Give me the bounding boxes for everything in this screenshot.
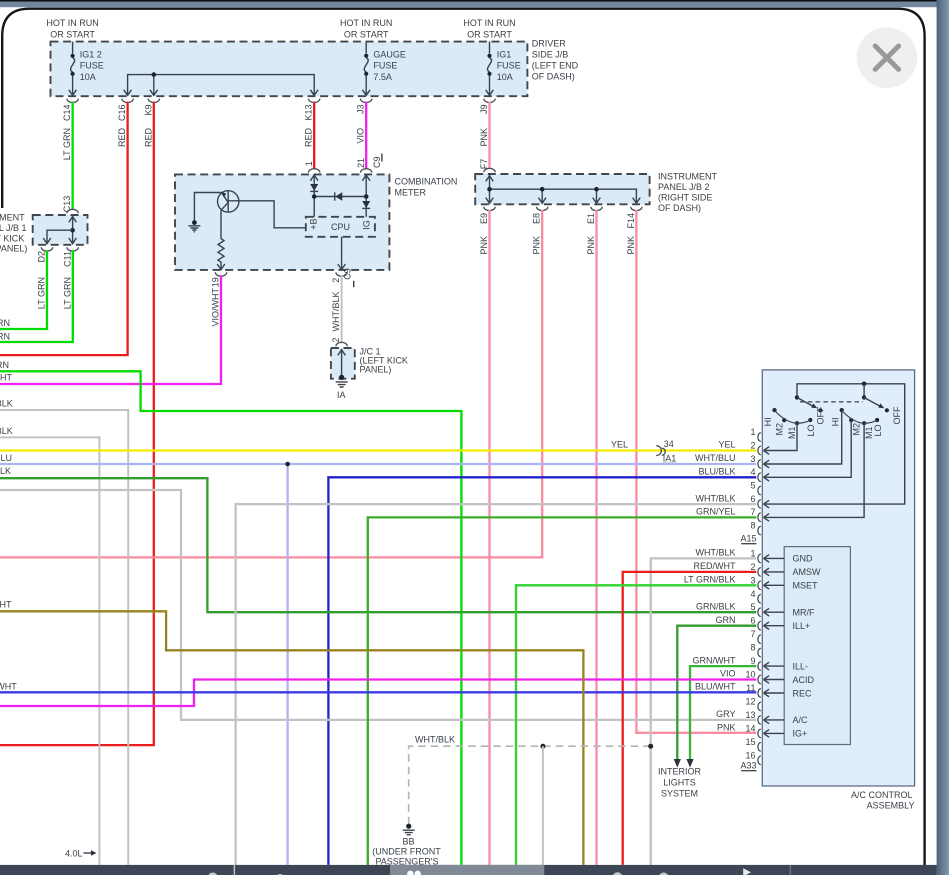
svg-text:12: 12 [745, 697, 755, 707]
connector A15 pin 3 [750, 454, 760, 468]
ground BB [372, 824, 441, 867]
meter horizontal wire with diode [314, 192, 366, 200]
svg-text:E9: E9 [479, 213, 489, 224]
svg-text:GND: GND [793, 554, 814, 564]
switch HI wire to pin 3 [764, 410, 842, 468]
rail junction [862, 382, 867, 387]
svg-text:OF DASH): OF DASH) [532, 72, 575, 82]
fuse IG1 10A [486, 42, 521, 96]
svg-text:13: 13 [745, 710, 755, 720]
svg-text:J3: J3 [356, 105, 366, 115]
wire LT GRN interior [0, 371, 461, 865]
svg-text:RED: RED [117, 128, 127, 148]
svg-text:F14: F14 [626, 213, 636, 229]
svg-text:6: 6 [750, 494, 755, 504]
svg-text:21: 21 [356, 158, 366, 168]
connector A15 pin 4 [750, 467, 760, 481]
svg-text:REC: REC [793, 688, 813, 698]
switch M2 wire to pin 4 [764, 420, 852, 481]
svg-text:IA1: IA1 [663, 453, 677, 463]
wire GRN/BLK to MR/F [0, 478, 756, 612]
svg-text:A/C: A/C [793, 715, 809, 725]
svg-text:10A: 10A [80, 72, 96, 82]
HOT IN RUN OR START label 2 [340, 18, 392, 40]
connector A15 pin 2 [750, 441, 760, 455]
svg-text:IG+: IG+ [793, 729, 808, 739]
wire WHT/BLU [0, 453, 756, 865]
svg-text:C9: C9 [343, 268, 353, 280]
svg-text:PANEL): PANEL) [360, 365, 392, 375]
wire PNK E1 [586, 210, 597, 865]
svg-text:LT GRN: LT GRN [37, 277, 47, 309]
svg-text:BLK: BLK [0, 466, 11, 476]
switch M1-2 wire to pin 7 [764, 423, 865, 521]
svg-text:DRIVER: DRIVER [532, 39, 567, 49]
connector A33 pin 16 [745, 750, 760, 764]
svg-text:M1: M1 [787, 426, 797, 439]
svg-text:5: 5 [750, 602, 755, 612]
switch 1 arm [797, 398, 817, 409]
svg-text:INSTRUMENT: INSTRUMENT [658, 172, 717, 182]
J/B bus wire [124, 75, 318, 96]
svg-text:WHT: WHT [0, 600, 12, 610]
svg-text:6: 6 [750, 616, 755, 626]
connector breaks at driver J/B outputs [67, 99, 495, 103]
svg-text:AMSW: AMSW [793, 567, 822, 577]
meter junction at pin 21 [364, 194, 369, 199]
connector A33 pin 11 [746, 683, 784, 697]
svg-text:MENT: MENT [0, 213, 25, 223]
svg-text:YEL: YEL [611, 440, 628, 450]
transistor emitter wire [194, 193, 222, 222]
wire WHT/BLK upper-left [0, 410, 128, 865]
svg-text:WHT/BLU: WHT/BLU [695, 453, 736, 463]
svg-text:RN: RN [0, 318, 10, 328]
svg-text:4.0L: 4.0L [65, 849, 83, 859]
svg-text:GAUGE: GAUGE [373, 49, 406, 59]
svg-text:A15: A15 [740, 534, 756, 544]
svg-text:HOT IN RUN: HOT IN RUN [340, 18, 392, 28]
svg-text:C11: C11 [62, 251, 72, 267]
J/C 1 box [331, 348, 355, 379]
svg-text:IG: IG [362, 220, 372, 230]
J/C 1 label [360, 347, 408, 375]
svg-text:VIO/WHT: VIO/WHT [211, 288, 221, 327]
svg-text:3: 3 [750, 575, 755, 585]
wire LT GRN C11 [0, 250, 73, 342]
svg-text:A/C CONTROL: A/C CONTROL [851, 790, 913, 800]
svg-text:J9: J9 [479, 105, 489, 115]
J/B 2 bus wire [486, 189, 641, 203]
svg-text:HI: HI [763, 417, 773, 426]
svg-text:RED/WHT: RED/WHT [694, 561, 736, 571]
connector A33 pin 2 [750, 562, 784, 576]
svg-text:1: 1 [750, 548, 755, 558]
svg-text:COMBINATION: COMBINATION [395, 177, 458, 187]
connector A33 pin 4 [750, 589, 760, 603]
svg-text:2: 2 [331, 278, 341, 283]
svg-text:OFF: OFF [892, 406, 902, 424]
svg-text:10A: 10A [497, 72, 513, 82]
svg-text:19: 19 [211, 277, 221, 287]
svg-text:VIO: VIO [356, 128, 366, 144]
meter pin 1 entry and diode [310, 175, 318, 217]
svg-text:16: 16 [745, 750, 755, 760]
connector A33 pin 15 [745, 737, 760, 751]
svg-text:YEL: YEL [718, 440, 735, 450]
svg-text:8: 8 [750, 521, 755, 531]
junction on WHT/BLU wire [285, 462, 290, 467]
svg-text:RED: RED [304, 128, 314, 148]
svg-text:GRN/YEL: GRN/YEL [696, 507, 736, 517]
switch 1 pivot [795, 395, 799, 399]
driver side J/B label [532, 39, 579, 82]
svg-text:2: 2 [750, 562, 755, 572]
instrument panel J/B 2 box [475, 174, 649, 204]
switch 1 contacts [772, 408, 822, 425]
svg-text:WHT: WHT [0, 681, 17, 691]
wire WHT/BLK dashed to BB ground [409, 735, 651, 825]
connector A15 label [740, 534, 756, 544]
switch 1 labels [763, 406, 826, 439]
driver side J/B box [51, 42, 528, 97]
svg-text:T KICK: T KICK [0, 233, 24, 243]
svg-text:CPU: CPU [331, 222, 350, 232]
svg-text:M2: M2 [852, 423, 862, 436]
svg-text:MSET: MSET [793, 581, 819, 591]
svg-text:METER: METER [395, 188, 427, 198]
wire GRN ILL+ to interior lights [674, 615, 757, 768]
connector A15 pin 8 [750, 521, 760, 535]
svg-text:GRN/BLK: GRN/BLK [696, 601, 736, 611]
svg-text:PNK: PNK [532, 236, 542, 255]
svg-text:1: 1 [750, 427, 755, 437]
svg-text:E8: E8 [532, 213, 542, 224]
connector A33 pin 8 [750, 643, 760, 657]
svg-text:8: 8 [750, 643, 755, 653]
svg-text:GRY: GRY [716, 709, 735, 719]
wire RED/WHT [623, 561, 757, 865]
svg-text:10: 10 [745, 670, 755, 680]
svg-text:FUSE: FUSE [80, 61, 104, 71]
wire LT GRN/BLK [516, 575, 756, 865]
svg-text:K13: K13 [304, 105, 314, 121]
svg-text:5: 5 [750, 481, 755, 491]
ground (meter) [188, 220, 200, 232]
svg-text:LO: LO [806, 424, 816, 436]
4.0L marker [65, 849, 97, 859]
svg-text:INTERIOR: INTERIOR [658, 767, 702, 777]
svg-text:OR START: OR START [467, 30, 512, 40]
junction dashed-solid drop [540, 744, 545, 749]
svg-text:ASSEMBLY: ASSEMBLY [867, 801, 915, 811]
svg-text:(UNDER FRONT: (UNDER FRONT [372, 847, 441, 857]
svg-text:OF DASH): OF DASH) [658, 203, 701, 213]
wire BLU/WHT to REC [0, 682, 756, 693]
wire YEL [0, 440, 756, 451]
svg-text:LIGHTS: LIGHTS [663, 778, 696, 788]
svg-text:BLU/WHT: BLU/WHT [695, 682, 736, 692]
svg-text:PNK: PNK [626, 236, 636, 255]
A/C control assembly label [851, 790, 915, 811]
svg-text:LT GRN/BLK: LT GRN/BLK [684, 575, 736, 585]
bottom toolbar [0, 865, 937, 875]
wire VIO/WHT 19 [0, 275, 221, 384]
svg-text:FUSE: FUSE [497, 61, 521, 71]
svg-text:LO: LO [873, 424, 883, 436]
svg-text:RN: RN [0, 332, 10, 342]
svg-text:C16: C16 [117, 105, 127, 122]
wire GRN/YEL [368, 507, 757, 865]
svg-text:4: 4 [750, 467, 755, 477]
svg-text:FUSE: FUSE [373, 61, 397, 71]
svg-text:L J/B 1: L J/B 1 [0, 223, 27, 233]
svg-text:PANEL J/B 2: PANEL J/B 2 [658, 182, 710, 192]
svg-text:WHT/BLK: WHT/BLK [331, 292, 341, 332]
svg-text:RN: RN [0, 360, 9, 370]
switch 2 pivot [862, 395, 866, 399]
wire GRN/WHT ILL- to interior lights [686, 655, 756, 767]
svg-text:1: 1 [304, 161, 314, 166]
connector A33 label [740, 761, 756, 771]
switch 2 contacts [840, 408, 889, 425]
connector A33 pin 13 [745, 710, 784, 724]
svg-text:WHT: WHT [0, 373, 12, 383]
wire GRY [0, 490, 756, 720]
meter pin 21 entry and diode [362, 175, 370, 217]
connector A33 pin 14 [745, 723, 784, 737]
A/C control assembly box [762, 370, 914, 786]
svg-text:/BLU: /BLU [0, 453, 12, 463]
J/B 2 bus junctions [487, 187, 599, 192]
instrument panel J/B 1 label (cut off) [0, 213, 27, 254]
wire VIO J3 [356, 102, 382, 173]
svg-text:RED: RED [143, 128, 153, 148]
wire PNK E8 [0, 210, 542, 558]
junction on J/B bus [152, 72, 157, 77]
wire PNK J9-F7 [479, 102, 495, 173]
svg-text:OFF: OFF [815, 406, 825, 424]
wire RED K13 [304, 102, 320, 173]
connector A33 pin 5 [750, 602, 784, 616]
svg-text:WHT/BLK: WHT/BLK [415, 735, 455, 745]
top edge dark line [0, 0, 949, 2]
J/B 1 internal wire and exit arrows [41, 230, 78, 251]
junction on WHT/BLK pin 1 wire [648, 744, 653, 749]
A33 ECU inner box [784, 547, 850, 745]
top blue-gray strip [0, 2, 949, 7]
svg-text:9: 9 [750, 656, 755, 666]
svg-text:7: 7 [750, 507, 755, 517]
svg-text:K9: K9 [143, 105, 153, 116]
wire RED C16 [0, 102, 128, 356]
transistor Q1 [218, 191, 239, 212]
svg-text:+B: +B [308, 219, 318, 230]
svg-text:LT GRN: LT GRN [62, 128, 72, 160]
svg-text:2: 2 [750, 441, 755, 451]
wire WHT/BLK drop from dashed junction [542, 746, 544, 865]
meter junction at pin 1 [312, 194, 317, 199]
instrument panel J/B 1 box [33, 215, 88, 245]
wire VIO to ACID [0, 669, 756, 706]
svg-text:A33: A33 [740, 761, 756, 771]
svg-text:E1: E1 [586, 213, 596, 224]
svg-text:ILL-: ILL- [793, 661, 809, 671]
connector A15 pin 6 [750, 494, 760, 508]
right blue-gray strip [937, 0, 949, 875]
connector A33 pin 7 [750, 629, 760, 643]
svg-text:IA: IA [337, 390, 346, 400]
transistor base lead to CPU [228, 201, 306, 228]
wire BRN/WHT [0, 611, 583, 865]
close button [857, 27, 918, 88]
svg-text:15: 15 [745, 737, 755, 747]
svg-text:WHT/BLK: WHT/BLK [695, 548, 735, 558]
connector A33 pin 3 [750, 575, 784, 589]
svg-text:C14: C14 [62, 105, 72, 122]
svg-text:C9: C9 [372, 156, 382, 168]
svg-text:D2: D2 [37, 251, 47, 263]
wire WHT/BLK to pin 6 [236, 493, 757, 865]
svg-text:SIDE J/B: SIDE J/B [532, 50, 569, 60]
switch gang dashed link [800, 401, 863, 403]
connector A33 pin 10 [745, 670, 784, 684]
connector A15 pin 1 [750, 427, 760, 441]
switch M1 wire to pin 2 [764, 423, 798, 454]
fuse IG1 2 10A [69, 42, 104, 96]
svg-text:GRN/WHT: GRN/WHT [693, 655, 736, 665]
svg-text:BLU/BLK: BLU/BLK [698, 467, 735, 477]
svg-text:LT GRN: LT GRN [62, 277, 72, 309]
svg-text:(LEFT END: (LEFT END [532, 61, 579, 71]
svg-text:OR START: OR START [50, 30, 95, 40]
switch 2 labels [831, 406, 902, 439]
wire PNK F14 [626, 210, 756, 733]
switch 2 arm [864, 398, 884, 409]
connector A15 pin 7 [750, 507, 760, 521]
svg-text:34: 34 [664, 439, 674, 449]
connector A15 pin 5 [750, 481, 760, 495]
svg-text:PNK: PNK [717, 723, 736, 733]
J/B 1 entry arrow C13 [69, 216, 77, 243]
switch 2 riser [863, 384, 865, 398]
svg-text:(RIGHT SIDE: (RIGHT SIDE [658, 193, 712, 203]
svg-text:7: 7 [750, 629, 755, 639]
inline connector IA1 pin 34 on YEL wire [656, 439, 677, 464]
svg-text:SYSTEM: SYSTEM [661, 789, 698, 799]
J/B 2 exit breaks [484, 207, 642, 211]
CPU output wire to C9 [338, 237, 346, 270]
blower switch common rail [764, 384, 905, 504]
svg-text:GRN: GRN [716, 615, 736, 625]
wire WHT/BLK mid-left [0, 437, 99, 865]
resistor R1 [217, 210, 225, 269]
J/C 1 entry arrow [338, 349, 346, 376]
combination meter label [395, 177, 458, 198]
svg-text:3: 3 [750, 454, 755, 464]
svg-text:PNK: PNK [479, 236, 489, 255]
svg-text:/BLK: /BLK [0, 426, 13, 436]
svg-text:PNK: PNK [479, 128, 489, 147]
wire LT GRN C14-C13 [62, 102, 78, 214]
combination meter box [175, 174, 389, 270]
rail arrow to pin 6 [764, 500, 770, 508]
svg-text:HOT IN RUN: HOT IN RUN [46, 18, 98, 28]
wire BLU/BLK [328, 467, 756, 865]
interior lights system label [658, 767, 702, 799]
svg-text:PNK: PNK [586, 236, 596, 255]
wire WHT/BLK to pin 1 A33 [651, 548, 757, 865]
J/C 1 ground IA [336, 375, 348, 400]
svg-text:IG1 2: IG1 2 [80, 49, 102, 59]
svg-text:OR START: OR START [344, 30, 389, 40]
svg-text:BB: BB [402, 836, 414, 846]
connector A33 pin 6 [750, 616, 784, 630]
svg-text:WHT/BLK: WHT/BLK [695, 493, 735, 503]
svg-text:PANEL): PANEL) [0, 244, 27, 254]
svg-text:2: 2 [331, 337, 341, 342]
svg-text:F7: F7 [479, 159, 489, 170]
wire PNK E9 [479, 210, 490, 865]
ECU pin names [793, 554, 822, 739]
J/B 2 entry arrow F7 [486, 175, 494, 189]
J/B 1 junction [70, 228, 75, 233]
svg-text:MR/F: MR/F [793, 608, 815, 618]
connector A33 pin 1 [750, 548, 784, 562]
svg-text:7.5A: 7.5A [373, 72, 392, 82]
HOT IN RUN OR START label 1 [46, 18, 98, 40]
svg-text:14: 14 [745, 723, 755, 733]
svg-text:HI: HI [831, 417, 841, 426]
HOT IN RUN OR START label 3 [463, 18, 515, 40]
wire WHT/BLK meter to J/C1 [331, 268, 354, 346]
svg-text:ACID: ACID [793, 675, 815, 685]
wire LT GRN D2 [0, 250, 47, 329]
svg-text:HOT IN RUN: HOT IN RUN [463, 18, 515, 28]
instrument panel J/B 2 label [658, 172, 717, 214]
fuse GAUGE 7.5A [362, 42, 406, 96]
svg-text:M2: M2 [775, 423, 785, 436]
svg-text:VIO: VIO [720, 669, 736, 679]
wire RED K9 [0, 102, 154, 746]
svg-text:11: 11 [746, 683, 755, 693]
connector A33 pin 12 [745, 697, 760, 711]
svg-text:/BLK: /BLK [0, 399, 13, 409]
svg-text:4: 4 [750, 589, 755, 599]
svg-text:IG1: IG1 [497, 49, 512, 59]
connector A33 pin 9 [750, 656, 784, 670]
svg-text:ILL+: ILL+ [793, 621, 811, 631]
CPU box [306, 217, 375, 237]
meter bottom exit breaks [215, 272, 347, 276]
